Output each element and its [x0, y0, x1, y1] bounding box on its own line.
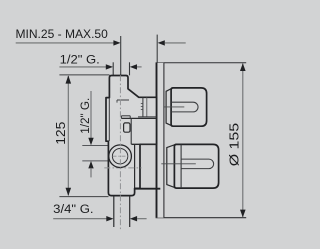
dimension line side port upper: [90, 91, 92, 139]
svg-text:Ø 155: Ø 155: [227, 123, 242, 166]
arrow left at bottom stub right: [130, 216, 137, 221]
housing bottom line: [138, 116, 157, 118]
side port outer circle: [109, 145, 132, 168]
dimension line MIN-MAX: [16, 42, 114, 44]
svg-text:MIN.25 - MAX.50: MIN.25 - MAX.50: [16, 27, 109, 41]
dimension line 155: [242, 64, 244, 218]
wall plate left edge: [156, 62, 158, 217]
dimension line 1/2 G top: [59, 66, 106, 68]
lower handle collar: [167, 145, 175, 188]
inner left step line: [108, 98, 110, 141]
thread hash 3: [141, 109, 143, 111]
svg-text:125: 125: [54, 122, 68, 145]
thread hash 1: [141, 103, 143, 105]
lower handle grip: [174, 144, 218, 188]
cartridge housing vertical 2: [146, 97, 148, 116]
dome base shoulder line: [117, 99, 129, 101]
bottom stub right line: [129, 196, 131, 227]
wall plate right edge: [163, 63, 165, 218]
tail of bottom right arrow: [137, 218, 147, 220]
cartridge housing vertical: [142, 97, 144, 116]
dimension line 125: [67, 76, 69, 195]
dimension line 3/4 G: [53, 218, 106, 220]
extension line side port bottom: [82, 160, 108, 162]
arrow right at bottom stub left: [106, 216, 113, 221]
middle block left edge: [130, 118, 132, 144]
middle block step vertical right: [129, 116, 131, 119]
arrow down 155: [240, 210, 246, 218]
middle block bottom line: [131, 143, 156, 145]
vertical centerline dash-dot: [119, 75, 121, 229]
tail of stub right arrow: [137, 66, 142, 68]
svg-text:3/4" G.: 3/4" G.: [53, 202, 93, 216]
svg-text:1/2" G.: 1/2" G.: [60, 52, 100, 66]
thread hash 2: [141, 106, 143, 108]
arrow left at stub right: [130, 64, 137, 69]
upper handle grip: [171, 88, 207, 126]
arrow right at stub left: [106, 64, 113, 69]
extension tick top (body top): [59, 74, 109, 76]
arrow up 125: [66, 75, 72, 83]
arrow down 125: [66, 188, 72, 196]
extension line plate top to dim: [157, 62, 246, 64]
arrow down side port: [88, 138, 93, 145]
lower handle joint line: [180, 145, 182, 189]
valve body silhouette: [106, 76, 157, 196]
middle block top line: [121, 117, 156, 119]
small label plate on body: [124, 123, 130, 132]
arrow right at center axis: [113, 40, 120, 45]
extension line center axis: [120, 36, 122, 75]
shoulder tick: [116, 100, 118, 103]
top stub left line: [112, 62, 114, 75]
dimension line side port lower: [90, 168, 92, 178]
bottom stub left line: [113, 196, 115, 227]
extension line wall plate: [156, 35, 158, 63]
lower handle lever slot: [181, 159, 213, 169]
horizontal centerline dash-dot: [104, 167, 141, 169]
middle block step vertical left: [120, 116, 122, 119]
extension tick bottom (body bottom): [59, 196, 108, 198]
svg-text:1/2" G.: 1/2" G.: [78, 98, 92, 134]
arrow up side port: [88, 161, 93, 168]
lower bracket shelf: [134, 188, 160, 190]
extension line side port top: [82, 145, 108, 147]
wall plate fill: [156, 63, 164, 218]
upper handle collar: [166, 89, 171, 126]
port centre horizontal dash: [113, 155, 128, 157]
extension line plate bottom to dim: [156, 217, 247, 219]
middle block step top: [121, 115, 130, 117]
side port inner circle: [112, 149, 127, 164]
lower handle stem line: [161, 163, 196, 165]
top stub right line: [129, 62, 131, 75]
upper handle lever slot: [171, 102, 198, 112]
arrow up 155: [240, 63, 246, 71]
tail of left arrow: [165, 42, 186, 44]
upper handle stem line: [164, 106, 184, 108]
arrow left at wall plate: [158, 40, 165, 45]
lower bracket vertical 1: [134, 144, 136, 188]
